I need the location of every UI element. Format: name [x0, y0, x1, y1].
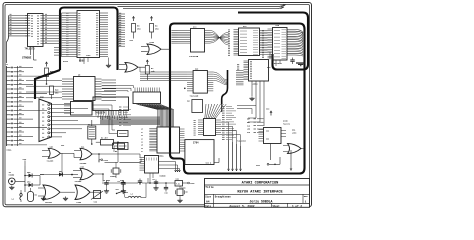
- resistor R4: [113, 143, 125, 153]
- svg-text:74LS245: 74LS245: [190, 95, 199, 98]
- wire bottom rail: [102, 178, 175, 184]
- wire U9 to verticals: [221, 122, 241, 146]
- wire L3 ends: [123, 183, 146, 198]
- svg-text:VCC O: VCC O: [206, 161, 213, 164]
- title block title text: [237, 191, 283, 195]
- wire video row: [40, 175, 44, 186]
- inductor L4: [12, 190, 23, 202]
- crystal X1: [88, 120, 96, 144]
- wire J2 node: [24, 166, 26, 192]
- wire stubs exiting CPU block: [118, 14, 126, 46]
- gate U2B LS02: [75, 185, 102, 204]
- wire U6 to X3: [92, 105, 118, 152]
- gate U2A 74LS02: [38, 185, 75, 204]
- ground mid module: [249, 97, 254, 101]
- wire crossover bundle: [210, 31, 229, 45]
- IC U6: [64, 102, 92, 116]
- IC U17 4064: [236, 60, 269, 86]
- svg-text:74LS08: 74LS08: [47, 159, 55, 162]
- transistor Q1: [28, 188, 38, 202]
- label 6502: [63, 54, 91, 63]
- svg-text:74LS74: 74LS74: [283, 122, 291, 125]
- svg-text:74LS08: 74LS08: [80, 162, 88, 165]
- IC U13 74LS245: [172, 26, 211, 58]
- capacitor C16: [267, 58, 295, 70]
- crystal Y2 12MHz: [110, 162, 121, 178]
- svg-text:X1: X1: [88, 124, 90, 126]
- IC U41: [187, 100, 203, 113]
- svg-text:74LS245: 74LS245: [189, 55, 199, 58]
- label X1: [88, 124, 90, 126]
- svg-text:Sw1: Sw1: [116, 189, 119, 191]
- wire bus from left edge to U1: [7, 16, 28, 64]
- wire RAM interconnect: [260, 31, 268, 55]
- module outline (CPU block): [35, 8, 118, 100]
- svg-text:MSM05: MSM05: [160, 175, 167, 178]
- switch S1: [116, 189, 129, 194]
- wire bundle to edge: [287, 30, 303, 57]
- wire bus U3 to Z80 fan: [98, 116, 160, 125]
- svg-text:C4: C4: [153, 178, 155, 181]
- wire curves to bus: [213, 72, 227, 85]
- wire U1 outputs to CPU block: [46, 16, 61, 56]
- bus heavy line: [222, 70, 228, 112]
- title block title label: [205, 185, 214, 189]
- svg-text:+VCC: +VCC: [103, 159, 109, 162]
- resistor R9 3k9: [150, 17, 160, 39]
- capacitor C10: [138, 179, 142, 186]
- svg-text:August 5, 2002: August 5, 2002: [229, 205, 254, 208]
- gate U1B 74LS08: [73, 166, 103, 183]
- title block box: [205, 179, 310, 208]
- gate U4A 74LS08: [74, 146, 99, 165]
- wire J1 to U5 field: [26, 80, 62, 97]
- svg-text:LOD: LOD: [247, 129, 250, 131]
- IC U7 2764 EPROM: [185, 140, 219, 165]
- capacitor C18: [164, 183, 168, 195]
- connector X3: [118, 131, 129, 137]
- pin label column right of U9: [222, 107, 236, 140]
- wire U15 bottom links: [270, 52, 280, 66]
- power +VCC mid: [99, 159, 109, 162]
- capacitor C8 10pF: [103, 180, 110, 189]
- label 74LS373: [25, 48, 36, 51]
- title block size label: [205, 195, 211, 203]
- svg-text:ENP: ENP: [247, 119, 250, 121]
- svg-text:STROBE: STROBE: [22, 56, 32, 59]
- resistor R7 10k: [145, 60, 155, 80]
- svg-text:C9: C9: [118, 181, 120, 183]
- gate U16C: [141, 41, 170, 55]
- wire U5 to module: [102, 80, 117, 100]
- wire fan bundle to Z80: [137, 104, 174, 127]
- IC U3 74LS374: [93, 97, 129, 116]
- diode CR2: [25, 171, 40, 178]
- diode CR1: [40, 153, 78, 176]
- svg-text:C1B: C1B: [165, 193, 168, 195]
- IC U15 74LS373: [262, 24, 287, 65]
- crystal X2: [175, 186, 187, 199]
- ground g6: [153, 186, 158, 190]
- resistor R3 4k7: [96, 137, 118, 146]
- svg-text:ATARI CORPORATION: ATARI CORPORATION: [242, 182, 279, 186]
- IC U14 (RAM): [228, 25, 260, 56]
- wire top bus B: [123, 7, 284, 9]
- resistor R45: [45, 62, 55, 84]
- connector CN3 (D-sub printer port): [39, 96, 114, 142]
- svg-text:KEY80 ATARI INTERFACE: KEY80 ATARI INTERFACE: [237, 191, 283, 195]
- capacitor C7: [120, 180, 126, 189]
- svg-text:Draughtsman: Draughtsman: [215, 195, 231, 198]
- inductor L3: [128, 193, 141, 198]
- wire verticals to bottom: [228, 140, 242, 171]
- title block rev: [304, 195, 309, 203]
- resistor R8 3k9: [130, 17, 142, 43]
- ground below U2: [106, 64, 111, 68]
- svg-text:Sheet: Sheet: [273, 205, 281, 208]
- wire U8 outputs right: [159, 162, 181, 173]
- flip-flop U10B 74LS74: [259, 119, 291, 143]
- junction dots: [46, 83, 186, 175]
- svg-text:REV: REV: [304, 195, 309, 198]
- connector J1 (expansion bus): [6, 63, 48, 152]
- IC U9 74LS153: [194, 119, 247, 143]
- gate U16A: [119, 63, 145, 73]
- wire top bus A: [118, 4, 286, 6]
- ground at J2: [9, 186, 14, 190]
- title block draughtsman: [215, 195, 273, 203]
- wire U17 outputs down: [248, 81, 264, 126]
- svg-text:F-81: F-81: [176, 184, 180, 186]
- resistor R46 3k9: [50, 86, 60, 99]
- IC U1 74LS373 (keyboard latch): [25, 14, 45, 47]
- ground g2: [63, 197, 68, 201]
- bus wire labels top-left: [10, 13, 122, 45]
- ground g3: [104, 189, 109, 193]
- power VCC in module: [266, 108, 272, 116]
- title block date row: [205, 204, 302, 208]
- IC U12 74LS157: [133, 88, 161, 104]
- ground g5: [177, 199, 182, 203]
- wire mid band to U12: [102, 86, 134, 92]
- IC U11 Z80 CPU: [141, 127, 180, 158]
- svg-text:74LS02: 74LS02: [45, 201, 53, 204]
- connector J2 video jack: [9, 171, 26, 185]
- svg-text:C10: C10: [120, 180, 123, 182]
- connector X4: [118, 143, 129, 150]
- wire Z80 right stubs: [180, 129, 185, 151]
- wire U1 bottom to strobe: [31, 47, 37, 61]
- svg-text:VCC: VCC: [256, 164, 261, 167]
- svg-text:Z80A: Z80A: [159, 155, 165, 158]
- IC U8 4050: [140, 156, 167, 178]
- svg-text:U41: U41: [187, 100, 190, 103]
- diode CR3: [25, 180, 40, 187]
- svg-text:U40: U40: [195, 68, 198, 71]
- wire gates to oscillator: [68, 153, 141, 162]
- xor gate U9A LS86: [283, 129, 304, 154]
- svg-text:2764: 2764: [193, 142, 199, 145]
- wire long rails: [99, 142, 118, 181]
- svg-text:C1B: C1B: [185, 192, 188, 194]
- sheet border outer: [3, 3, 312, 207]
- capacitor C9 20pF: [118, 180, 126, 187]
- svg-text:LS86: LS86: [292, 132, 296, 134]
- capacitor C4: [153, 178, 159, 186]
- svg-text:74LS374: 74LS374: [95, 112, 106, 115]
- IC U40 74LS244: [187, 68, 213, 98]
- signal labels: [237, 106, 264, 135]
- ground g4: [121, 189, 126, 193]
- wire left exits U40: [138, 67, 187, 80]
- module outline (RAM block): [238, 13, 308, 70]
- svg-text:R3 4k7: R3 4k7: [101, 137, 109, 140]
- svg-text:C9 10pF: C9 10pF: [103, 180, 110, 182]
- ground heavy: [296, 63, 305, 66]
- svg-text:ENT: ENT: [247, 122, 250, 124]
- trimmer RV1: [91, 191, 103, 204]
- power label VCC: [23, 158, 27, 166]
- sheet border inner: [5, 5, 310, 205]
- svg-text:74LS373: 74LS373: [273, 62, 283, 65]
- svg-text:Date: Date: [205, 205, 211, 208]
- svg-text:A4: A4: [206, 201, 210, 204]
- net label STROBE: [22, 56, 32, 59]
- pin label column left of fan: [119, 107, 131, 125]
- IC U2 6502 CPU: [62, 11, 109, 58]
- svg-text:CN2A: CN2A: [7, 149, 13, 152]
- wire U8 rail links: [149, 173, 153, 184]
- wire bundle to U9: [205, 104, 227, 119]
- gate U4B 74LS08: [42, 145, 68, 162]
- regulator U34 7906: [175, 178, 195, 190]
- IC U5 74LS244: [62, 74, 102, 101]
- module outline (main interface block): [170, 24, 305, 174]
- title block company text: [242, 182, 279, 186]
- svg-text:74LS08: 74LS08: [75, 180, 83, 183]
- svg-text:4064: 4064: [253, 83, 259, 86]
- svg-text:Size: Size: [205, 195, 211, 198]
- svg-text:Jerzy SOBOLA: Jerzy SOBOLA: [250, 200, 273, 204]
- svg-text:Title: Title: [205, 185, 214, 189]
- svg-text:74LS153: 74LS153: [237, 139, 246, 142]
- wire vcc node: [256, 144, 280, 168]
- wire U2 bottom stubs: [80, 58, 109, 65]
- ground g1: [41, 197, 46, 201]
- svg-text:4164: 4164: [63, 60, 69, 63]
- svg-text:VIDEO: VIDEO: [9, 174, 16, 177]
- wire module bottom arrows: [290, 150, 292, 171]
- svg-text:1 of 2: 1 of 2: [292, 204, 302, 208]
